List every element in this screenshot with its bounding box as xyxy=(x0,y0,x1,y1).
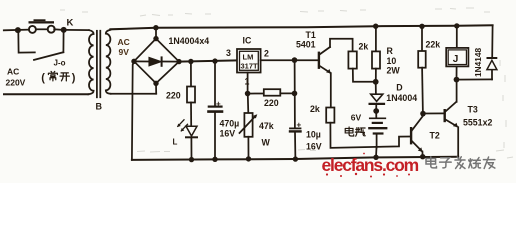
diode 1N4148 xyxy=(491,70,493,80)
transformer B secondary winding xyxy=(106,30,111,94)
svg-text:9V: 9V xyxy=(119,47,130,57)
node 22k / T2 collector / T3 base xyxy=(420,111,426,117)
node mid rail / C 470u branch xyxy=(212,58,217,63)
watermark grunge dots xyxy=(326,153,410,178)
svg-text:10µ: 10µ xyxy=(306,130,321,140)
wire bridge bottom stem xyxy=(155,83,157,93)
svg-text:D: D xyxy=(396,83,402,93)
svg-text:2k: 2k xyxy=(310,104,320,114)
node top rail / 22k xyxy=(419,24,424,29)
svg-text:B: B xyxy=(96,102,103,112)
resistor 2k (T1 collector) xyxy=(348,51,356,68)
node T2 emitter / bottom rail xyxy=(420,154,425,159)
node top rail / relay J xyxy=(454,23,459,28)
relay contact blade xyxy=(34,52,63,60)
resistor 220 (adj) xyxy=(248,93,264,95)
node C1 / bottom rail xyxy=(212,157,217,162)
svg-text:3: 3 xyxy=(226,48,231,58)
svg-text:IC: IC xyxy=(243,36,252,46)
relay contact J-o right lead xyxy=(62,30,64,52)
wire node to transformer primary xyxy=(66,29,89,31)
svg-text:AC: AC xyxy=(118,37,130,47)
svg-text:W: W xyxy=(262,138,271,148)
svg-text:220: 220 xyxy=(166,91,181,101)
node LED / bottom rail xyxy=(189,157,194,162)
svg-text:1N4004x4: 1N4004x4 xyxy=(169,36,210,46)
node 47k / bottom rail xyxy=(246,156,251,161)
svg-text:elecfans.com: elecfans.com xyxy=(322,155,419,175)
node C 10u / bottom rail xyxy=(293,156,298,161)
wire bridge left vertex down to bottom rail xyxy=(132,63,134,160)
svg-text:T1: T1 xyxy=(306,30,316,40)
svg-text:R: R xyxy=(387,46,394,56)
IC pin1 stem xyxy=(247,73,249,92)
svg-text:LM: LM xyxy=(243,53,254,62)
relay contact J-o left lead xyxy=(18,30,35,52)
wire: AC mains top lead xyxy=(4,29,29,32)
svg-text:1N4148: 1N4148 xyxy=(473,48,483,77)
transistor T2 xyxy=(410,128,412,143)
LED L xyxy=(186,126,197,136)
wire: AC mains bottom lead xyxy=(4,93,88,95)
node R220 adj / C 10u xyxy=(292,91,298,97)
IC LM317T xyxy=(237,49,261,73)
node top rail / bridge xyxy=(153,25,158,30)
IC pin2 wire to T1 base xyxy=(261,59,318,61)
wire: top rail xyxy=(110,25,492,29)
svg-text:317T: 317T xyxy=(241,62,259,71)
bridge rectifier 1N4004x4 xyxy=(134,39,179,84)
wire: DC mid rail bridge to IC xyxy=(179,60,237,61)
svg-text:(: ( xyxy=(41,72,45,84)
node pin1 / R220 adj / 47k pot xyxy=(245,91,251,97)
svg-text:T3: T3 xyxy=(468,105,478,115)
node top rail / R xyxy=(373,24,378,29)
diode D 1N4004 xyxy=(375,82,377,94)
scan noise marks xyxy=(60,8,513,158)
node pin2 / C 10u branch xyxy=(292,57,298,63)
wire 2k lower to T2 base riser xyxy=(330,123,410,148)
transformer core xyxy=(96,31,98,98)
node mid rail / R220 LED branch xyxy=(188,59,193,64)
svg-text:470µ: 470µ xyxy=(220,119,240,129)
svg-text:): ) xyxy=(72,72,76,84)
resistor 2k (T1 emitter) xyxy=(326,108,334,123)
wire: bottom rail xyxy=(132,157,458,160)
watermark elecfans.com xyxy=(322,155,495,175)
svg-text:2W: 2W xyxy=(387,66,401,76)
potentiometer 47k W xyxy=(247,96,250,114)
battery 6V xyxy=(375,111,377,117)
svg-text:2: 2 xyxy=(264,48,269,58)
svg-text:220: 220 xyxy=(264,98,279,108)
transistor T3 xyxy=(444,110,446,121)
node R / 2k / D anode xyxy=(373,79,379,85)
svg-text:47k: 47k xyxy=(259,121,274,131)
resistor R 10 2W xyxy=(375,26,377,51)
wire bridge top stem xyxy=(155,28,157,39)
node J / T3 collector / 1N4148 xyxy=(454,77,460,83)
svg-text:L: L xyxy=(173,138,178,147)
wire 22k node to T3 base xyxy=(423,112,445,114)
LED arrows xyxy=(177,120,187,132)
svg-text:J-o: J-o xyxy=(54,59,66,68)
node battery - / bottom rail xyxy=(373,155,378,160)
svg-text:5551x2: 5551x2 xyxy=(463,117,492,127)
svg-text:1: 1 xyxy=(245,77,250,87)
svg-text:AC: AC xyxy=(7,67,19,77)
capacitor C1 470u 16V xyxy=(214,61,216,106)
svg-text:J: J xyxy=(453,54,459,65)
svg-text:+: + xyxy=(297,120,302,129)
resistor 22k xyxy=(421,26,423,51)
svg-text:16V: 16V xyxy=(220,129,236,139)
svg-text:10: 10 xyxy=(387,56,397,66)
transformer B primary winding xyxy=(88,30,93,94)
node left of button xyxy=(15,27,21,33)
wire: secondary bottom to bridge xyxy=(111,93,157,95)
relay J coil xyxy=(456,26,458,48)
resistor 220 (LED chain) xyxy=(190,62,192,87)
wire button to node K xyxy=(54,28,63,31)
node right of button xyxy=(61,27,67,33)
pushbutton K xyxy=(29,19,55,33)
svg-text:2k: 2k xyxy=(359,42,369,52)
wire J node to 1N4148 xyxy=(457,78,493,80)
node D cathode / battery + xyxy=(373,108,379,114)
svg-text:1N4004: 1N4004 xyxy=(386,93,417,103)
transistor T1 5401 xyxy=(318,53,320,68)
svg-text:K: K xyxy=(67,18,74,29)
svg-text:+: + xyxy=(216,100,221,109)
svg-text:6V: 6V xyxy=(351,113,362,123)
svg-text:5401: 5401 xyxy=(296,40,316,50)
svg-text:220V: 220V xyxy=(6,78,26,88)
capacitor C2 10u 16V xyxy=(294,60,296,128)
svg-text:T2: T2 xyxy=(430,131,440,141)
svg-text:22k: 22k xyxy=(426,40,441,50)
